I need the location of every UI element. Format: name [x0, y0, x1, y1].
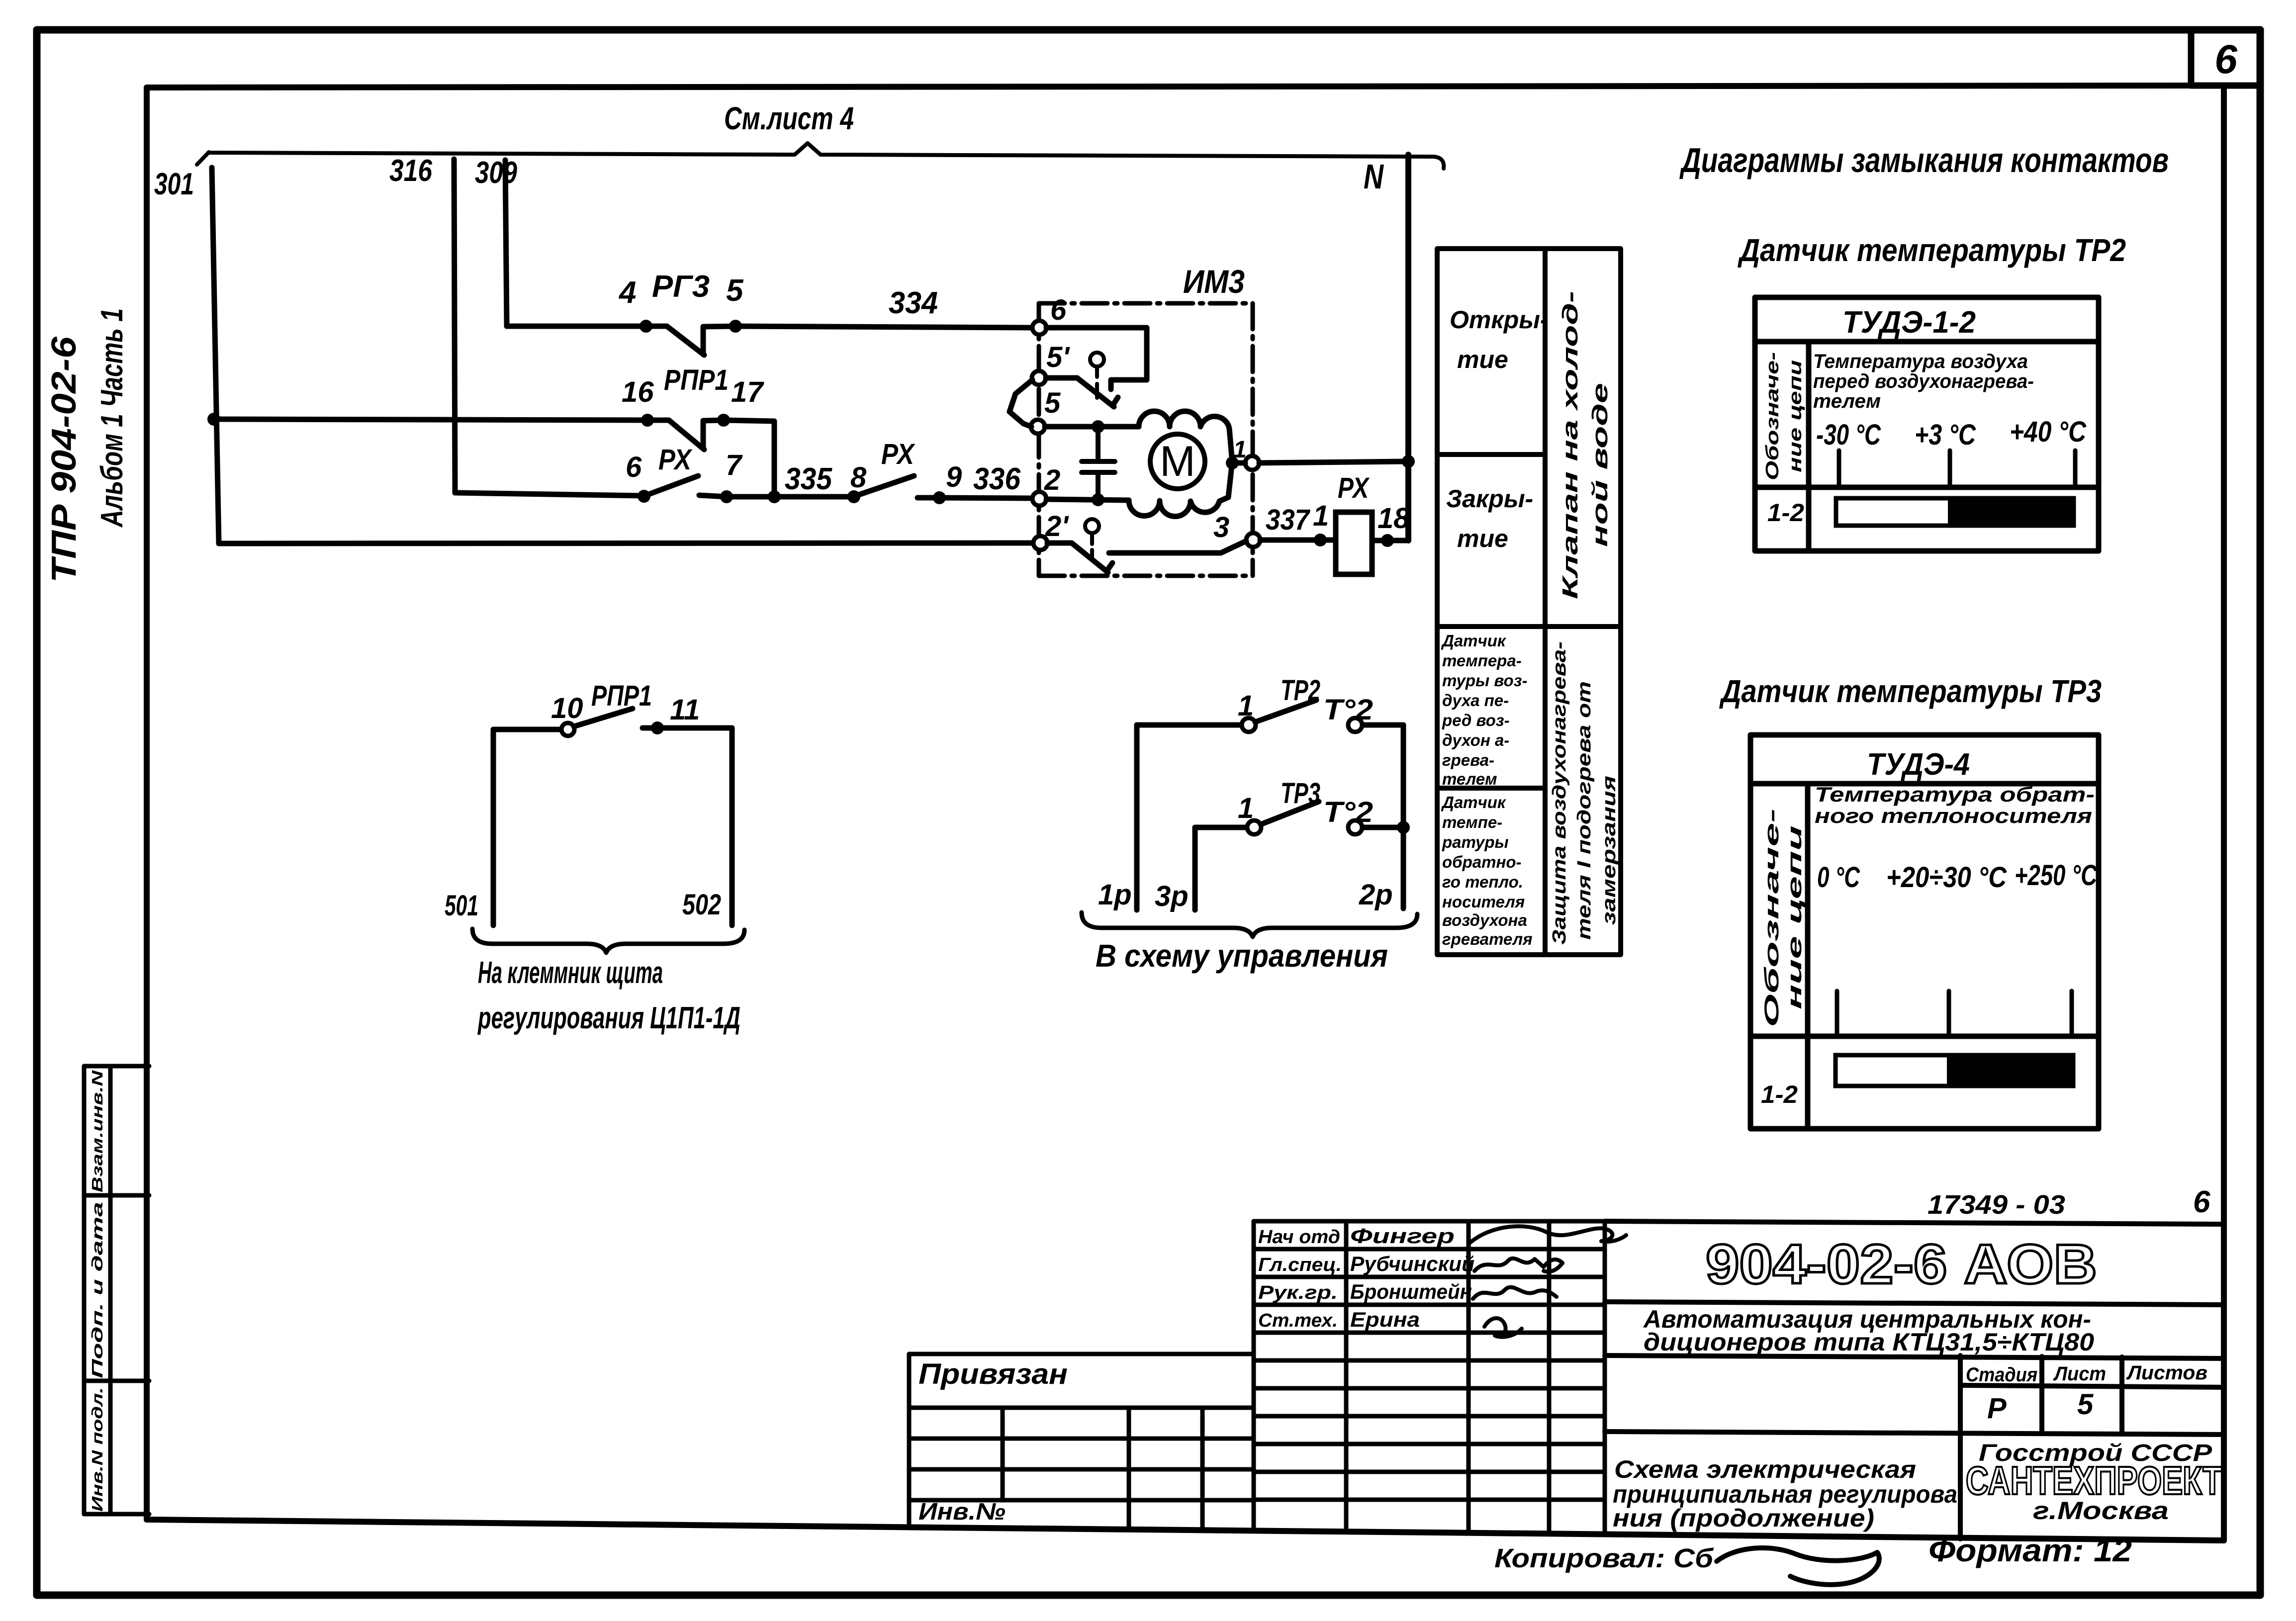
svg-text:ТУДЭ-4: ТУДЭ-4 — [1867, 747, 1970, 782]
terminal 6 — [1032, 294, 1067, 335]
svg-text:См.лист 4: См.лист 4 — [724, 100, 854, 136]
contact RX (6-7) — [638, 476, 733, 503]
svg-text:11: 11 — [670, 694, 700, 726]
contact RG3 (4-5) — [640, 320, 742, 355]
svg-text:Откры-: Откры- — [1450, 306, 1549, 334]
svg-text:502: 502 — [682, 889, 721, 921]
svg-text:904-02-6 АОВ: 904-02-6 АОВ — [1706, 1233, 2097, 1295]
closing bar TR2 — [1836, 498, 2074, 526]
svg-text:Датчик: Датчик — [1441, 631, 1507, 650]
capacitor C — [1082, 427, 1115, 500]
svg-text:Т°2: Т°2 — [1323, 694, 1373, 726]
svg-text:2р: 2р — [1359, 879, 1393, 911]
svg-text:7: 7 — [726, 449, 743, 481]
svg-text:10: 10 — [551, 692, 583, 724]
svg-text:5: 5 — [1044, 387, 1061, 419]
terminal 5 — [1031, 387, 1061, 434]
svg-text:ного теплоносителя: ного теплоносителя — [1815, 804, 2092, 827]
svg-text:В схему управления: В схему управления — [1096, 938, 1388, 974]
svg-text:РХ: РХ — [1338, 472, 1370, 504]
svg-text:ние цепи: ние цепи — [1785, 360, 1805, 472]
wire 337 from terminal 3 to coil — [1260, 538, 1336, 543]
rotated label Vzam.inv.N — [89, 1070, 106, 1192]
svg-text:Взам.инв.N: Взам.инв.N — [89, 1070, 106, 1192]
svg-text:тие: тие — [1457, 525, 1508, 552]
svg-text:2': 2' — [1045, 510, 1069, 542]
lower limit switch actuator — [1085, 519, 1099, 560]
jumper 5'-5 — [1010, 380, 1032, 427]
sensor table TUDE-1-2 — [1755, 297, 2099, 551]
svg-text:336: 336 — [973, 462, 1020, 496]
svg-text:Защита воздухонагрева-: Защита воздухонагрева- — [1549, 641, 1570, 945]
svg-text:+250 °С: +250 °С — [2015, 859, 2098, 892]
upper limit switch actuator — [1090, 353, 1104, 398]
svg-text:духон а-: духон а- — [1442, 731, 1509, 749]
sensor table TUDE-4 — [1750, 735, 2099, 1129]
wire 309 vertical — [505, 160, 507, 326]
junction dot motor output — [1226, 456, 1239, 469]
svg-text:темпе-: темпе- — [1442, 813, 1502, 831]
svg-text:телем: телем — [1442, 770, 1497, 788]
svg-text:309: 309 — [475, 156, 517, 190]
svg-text:18: 18 — [1378, 502, 1410, 535]
svg-text:4: 4 — [618, 275, 636, 310]
svg-text:Датчик температуры ТР2: Датчик температуры ТР2 — [1738, 232, 2126, 268]
wire 336 — [939, 498, 1032, 498]
svg-text:501: 501 — [445, 890, 478, 922]
svg-text:1: 1 — [1238, 792, 1254, 824]
brace klemmnik — [472, 929, 744, 953]
svg-text:обратно-: обратно- — [1442, 853, 1522, 871]
svg-text:духа пе-: духа пе- — [1442, 691, 1509, 710]
svg-text:+40 °С: +40 °С — [2010, 416, 2087, 448]
svg-text:+3 °С: +3 °С — [1915, 419, 1976, 451]
svg-text:9: 9 — [946, 461, 962, 493]
svg-text:301: 301 — [154, 167, 194, 201]
svg-text:Закры-: Закры- — [1446, 485, 1533, 513]
junction dot cap top — [1092, 420, 1104, 433]
actuator IM3 dash-dot box — [1039, 303, 1253, 576]
svg-text:2: 2 — [1044, 464, 1060, 496]
left edge inventory mini-table — [84, 1066, 149, 1514]
svg-text:Рук.гр.: Рук.гр. — [1258, 1282, 1338, 1303]
svg-text:Датчик температуры ТР3: Датчик температуры ТР3 — [1719, 673, 2102, 709]
svg-text:316: 316 — [389, 154, 432, 188]
svg-text:ной воде: ной воде — [1588, 383, 1612, 547]
terminal 1 — [1233, 437, 1259, 470]
wire 1 from terminal 1 to N — [1259, 461, 1407, 463]
svg-text:воздухона: воздухона — [1442, 911, 1527, 929]
svg-text:Формат: 12: Формат: 12 — [1929, 1532, 2132, 1568]
contact RPR1 (16-17) — [641, 414, 730, 450]
svg-text:5: 5 — [726, 273, 744, 308]
terminal 2 — [1032, 464, 1060, 506]
svg-text:1: 1 — [1238, 690, 1254, 722]
svg-text:ние цепи: ние цепи — [1784, 825, 1806, 1009]
svg-text:ратуры: ратуры — [1442, 833, 1509, 851]
brace v shemu — [1082, 912, 1417, 937]
motor bottom winding — [1129, 465, 1232, 517]
svg-text:темпера-: темпера- — [1442, 651, 1522, 670]
svg-text:Диаграммы замыкания контакто: Диаграммы замыкания контактов — [1679, 141, 2169, 180]
title block signature table — [1254, 1221, 1605, 1534]
junction dot 301/row2 — [207, 413, 220, 426]
wire 334 — [735, 326, 1033, 328]
svg-text:Обозначе-: Обозначе- — [1762, 352, 1782, 480]
svg-text:ТУДЭ-1-2: ТУДЭ-1-2 — [1842, 305, 1976, 340]
svg-text:перед воздухонагрева-: перед воздухонагрева- — [1813, 370, 2034, 392]
upper limit switch blade from 5' — [1046, 378, 1118, 407]
rotated cell Klapan na holodnoy vode — [1558, 291, 1582, 599]
svg-text:5': 5' — [1046, 341, 1070, 373]
svg-text:ТР3: ТР3 — [1281, 777, 1320, 810]
svg-text:САНТЕХПРОЕКТ: САНТЕХПРОЕКТ — [1966, 1458, 2222, 1503]
cell Datchik obratnogo — [1441, 793, 1533, 948]
rotated label oboznachenie tsepi TR3 — [1761, 809, 1783, 1027]
svg-text:РХ: РХ — [881, 438, 916, 470]
svg-text:Листов: Листов — [2126, 1362, 2207, 1384]
svg-text:Копировал: Сб: Копировал: Сб — [1494, 1543, 1714, 1573]
svg-text:Инв.№: Инв.№ — [918, 1499, 1006, 1525]
wire from junction to terminal 1 — [1232, 460, 1245, 466]
junction dot wire1/N — [1402, 455, 1415, 468]
TR2 contact circuit — [1137, 725, 1403, 910]
svg-text:8: 8 — [850, 461, 867, 494]
left margin vertical text Albom 1 Chast 1 — [95, 308, 129, 528]
terminal 2' — [1033, 510, 1069, 550]
svg-text:Стадия: Стадия — [1966, 1364, 2037, 1386]
wire 2 inside box — [1046, 499, 1129, 500]
wire row3 from 316 to RX — [455, 493, 644, 496]
wire coil to N — [1372, 538, 1407, 543]
contact TR3 — [1247, 802, 1362, 834]
svg-text:337: 337 — [1266, 504, 1310, 536]
svg-text:регулирования Ц1П1-1Д: регулирования Ц1П1-1Д — [477, 1001, 740, 1035]
svg-text:РПР1: РПР1 — [591, 680, 652, 712]
svg-text:тие: тие — [1457, 346, 1508, 373]
terminal 3 — [1213, 511, 1260, 547]
signature rows text — [1258, 1227, 1342, 1331]
upper limit switch fixed L-wire from terminal 6 — [1046, 328, 1147, 389]
svg-text:Клапан на холод-: Клапан на холод- — [1558, 291, 1582, 599]
svg-text:6: 6 — [626, 451, 642, 483]
wire 335 segment with junction — [727, 494, 854, 500]
wire row4 from 301 to terminal 2' — [219, 543, 1033, 543]
svg-text:6: 6 — [1050, 294, 1067, 326]
function table (Otkrytie/Zakrytie) — [1437, 249, 1621, 955]
svg-text:Р: Р — [1987, 1392, 2007, 1425]
wire row2 from 301 to RPR1 — [214, 419, 647, 420]
svg-text:ТР2: ТР2 — [1281, 674, 1320, 707]
svg-text:5: 5 — [2077, 1388, 2094, 1421]
closing bar TR3 — [1836, 1055, 2073, 1086]
svg-text:Схема электрическая: Схема электрическая — [1614, 1455, 1916, 1483]
motor M circle — [1150, 434, 1205, 489]
svg-text:+20÷30 °С: +20÷30 °С — [1886, 861, 2007, 894]
ticks TR3 — [1837, 991, 2072, 1036]
rotated label Inv.N podl. — [89, 1387, 106, 1512]
svg-text:Привязан: Привязан — [918, 1358, 1068, 1390]
privyazan table — [909, 1354, 1254, 1531]
junction dot 18 — [1381, 534, 1394, 547]
svg-text:гревателя: гревателя — [1442, 930, 1533, 948]
left margin vertical text TPR 904-02-6 — [44, 336, 83, 583]
svg-text:Т°2: Т°2 — [1323, 796, 1373, 828]
svg-text:17: 17 — [731, 376, 764, 408]
wire 301 vertical — [212, 168, 219, 543]
svg-text:Датчик: Датчик — [1441, 793, 1507, 811]
svg-text:телем: телем — [1813, 390, 1881, 412]
svg-text:1р: 1р — [1098, 879, 1132, 911]
svg-text:Рубчинский: Рубчинский — [1350, 1252, 1474, 1275]
svg-text:теля I подогрева от: теля I подогрева от — [1574, 681, 1595, 940]
svg-text:3: 3 — [1213, 511, 1229, 543]
svg-text:-30 °С: -30 °С — [1816, 419, 1881, 451]
rotated label Podp. i data — [89, 1202, 106, 1378]
svg-text:Обозначе-: Обозначе- — [1761, 809, 1783, 1027]
svg-text:замерзания: замерзания — [1599, 776, 1620, 925]
svg-text:М: М — [1160, 438, 1195, 485]
svg-text:17349 - 03: 17349 - 03 — [1928, 1190, 2065, 1220]
svg-text:Температура обрат-: Температура обрат- — [1815, 783, 2095, 806]
svg-text:334: 334 — [889, 286, 938, 320]
svg-text:Температура воздуха: Температура воздуха — [1813, 351, 2028, 372]
svg-text:Ерина: Ерина — [1350, 1308, 1420, 1331]
svg-text:Гл.спец.: Гл.спец. — [1258, 1255, 1342, 1275]
contact RPR1 aux — [561, 709, 664, 736]
svg-text:3р: 3р — [1155, 880, 1189, 912]
svg-text:1: 1 — [1313, 500, 1329, 532]
svg-text:РГ3: РГ3 — [652, 270, 710, 304]
rotated label oboznachenie tsepi TR2 — [1762, 352, 1782, 480]
svg-text:г.Москва: г.Москва — [2033, 1497, 2169, 1525]
svg-text:Подп. и дата: Подп. и дата — [89, 1202, 106, 1378]
svg-text:Нач отд: Нач отд — [1258, 1227, 1340, 1248]
motor top winding — [1139, 411, 1232, 462]
svg-text:Лист: Лист — [2053, 1363, 2106, 1385]
signature squiggle 1 — [1469, 1226, 1626, 1243]
contact RX (8-9) — [847, 476, 946, 504]
svg-text:6: 6 — [2193, 1185, 2210, 1219]
junction dot 337 — [1314, 534, 1327, 546]
svg-text:го тепло.: го тепло. — [1442, 873, 1523, 891]
wire row1 from 309 to RG3 — [507, 324, 646, 329]
svg-text:ния (продолжение): ния (продолжение) — [1613, 1504, 1874, 1532]
svg-text:Альбом 1 Часть 1: Альбом 1 Часть 1 — [95, 308, 129, 528]
terminal 5' — [1032, 341, 1070, 385]
wire from terminal 5 to motor top — [1045, 424, 1139, 430]
kopiroval swoosh — [1717, 1548, 1879, 1585]
svg-text:Ст.тех.: Ст.тех. — [1258, 1310, 1338, 1331]
svg-text:16: 16 — [622, 376, 654, 408]
signature squiggle 3 — [1473, 1287, 1557, 1299]
svg-text:носителя: носителя — [1442, 893, 1525, 911]
junction dot TR3/right — [1397, 821, 1410, 834]
rotated cell Zashchita — [1549, 641, 1570, 945]
svg-text:РХ: РХ — [658, 444, 693, 476]
svg-text:ИМ3: ИМ3 — [1183, 263, 1245, 300]
contact TR2 — [1242, 700, 1362, 732]
bus boundary bracket line under Sm.list 4 — [197, 143, 1444, 169]
wire row2 jog down to row3 — [724, 420, 774, 497]
sheet number box 6 (top right) — [2191, 31, 2260, 86]
junction dot cap bottom — [1092, 493, 1104, 506]
svg-text:ТПР 904-02-6: ТПР 904-02-6 — [44, 336, 83, 583]
title block right part — [1605, 1221, 2224, 1539]
svg-text:диционеров типа КТЦ31,5÷КТЦ80: диционеров типа КТЦ31,5÷КТЦ80 — [1644, 1328, 2094, 1356]
svg-text:0 °С: 0 °С — [1817, 861, 1860, 894]
wire 316 vertical — [454, 159, 455, 493]
lower limit switch blade from 2' — [1047, 543, 1112, 572]
svg-text:ред воз-: ред воз- — [1442, 711, 1510, 729]
svg-text:1-2: 1-2 — [1761, 1081, 1798, 1108]
cell Datchik vozduha — [1441, 631, 1527, 788]
svg-text:Бронштейн: Бронштейн — [1350, 1280, 1472, 1303]
ticks TR2 — [1839, 450, 2075, 487]
signature squiggle 2 — [1474, 1259, 1562, 1272]
svg-text:туры воз-: туры воз- — [1442, 671, 1527, 690]
svg-text:Фингер: Фингер — [1350, 1224, 1455, 1248]
svg-text:Инв.N подл.: Инв.N подл. — [89, 1387, 106, 1512]
svg-text:1-2: 1-2 — [1767, 499, 1804, 527]
svg-text:335: 335 — [785, 462, 832, 496]
svg-text:N: N — [1364, 157, 1384, 196]
lower limit switch fixed wire to terminal 3 — [1109, 541, 1246, 553]
relay coil RX — [1336, 512, 1372, 574]
svg-text:6: 6 — [2214, 37, 2238, 82]
svg-text:грева-: грева- — [1442, 751, 1494, 769]
wire N vertical — [1405, 155, 1411, 540]
svg-text:РПР1: РПР1 — [664, 364, 729, 396]
auxiliary contact RPR1 (10-11) loop — [493, 728, 732, 925]
svg-text:На клеммник щита: На клеммник щита — [478, 956, 663, 990]
junction dot row2-jog/row3 — [768, 490, 781, 503]
signature squiggle 4 — [1484, 1318, 1522, 1337]
